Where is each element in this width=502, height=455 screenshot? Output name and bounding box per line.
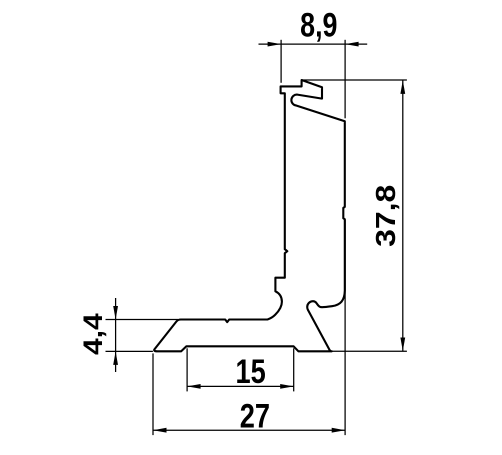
extension line 8,9 left [280, 40, 282, 83]
dimension line 4,4 [115, 298, 117, 372]
svg-text:8,9: 8,9 [300, 6, 337, 44]
extension line 27 left [152, 353, 154, 435]
arrowhead 8,9 left [268, 42, 282, 47]
extension line 15 left [186, 348, 188, 391]
arrowhead 27 left [153, 428, 167, 433]
svg-text:4,4: 4,4 [78, 313, 108, 355]
arrowhead 15 left [187, 384, 201, 389]
extension line 4,4 bottom [106, 350, 153, 352]
dimension line 8,9 [259, 43, 368, 45]
extension line 27 right (long, below edge notch) [344, 220, 346, 435]
extension line 37,8 bottom [332, 350, 407, 352]
arrowhead 8,9 right [345, 42, 359, 47]
extension line 37,8 top [301, 79, 407, 81]
arrowhead 27 right [332, 428, 346, 433]
arrowhead 37,8 bottom [400, 338, 405, 352]
arrowhead 4,4 top [113, 306, 118, 320]
svg-text:27: 27 [240, 396, 270, 435]
extension line 8,9 right (upper) [344, 40, 346, 119]
dimension line 15 [187, 385, 294, 387]
arrowhead 15 right [280, 384, 294, 389]
arrowhead 37,8 top [400, 80, 405, 94]
dimension line 27 [153, 429, 345, 431]
svg-text:15: 15 [235, 352, 265, 391]
aluminium profile cross-section outline [154, 80, 345, 351]
arrowhead 4,4 bottom [113, 351, 118, 365]
extension line 4,4 top [106, 319, 179, 321]
dimension line 37,8 [402, 80, 404, 351]
svg-text:37,8: 37,8 [371, 185, 402, 247]
extension line 15 right [293, 348, 295, 391]
